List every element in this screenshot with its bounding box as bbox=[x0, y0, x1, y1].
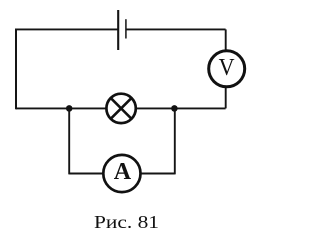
ammeter label A bbox=[114, 159, 132, 186]
node left junction bbox=[66, 105, 73, 112]
wire top-right horizontal (battery right lead) bbox=[126, 28, 226, 30]
lamp HL1 bbox=[106, 94, 135, 123]
ammeter PA1 bbox=[103, 155, 140, 192]
battery GB1 long plate bbox=[117, 10, 119, 50]
wire ammeter bottom horizontal bbox=[69, 173, 175, 175]
wire voltmeter bottom lead bbox=[225, 87, 227, 108]
voltmeter label V bbox=[219, 55, 234, 82]
wire top-left horizontal (battery left lead) bbox=[16, 28, 118, 30]
caption Рис. 81 bbox=[94, 212, 320, 233]
wire ammeter right vertical bbox=[174, 108, 176, 174]
battery GB1 short plate bbox=[125, 19, 127, 38]
voltmeter PV1 bbox=[209, 51, 245, 87]
wire voltmeter top lead bbox=[225, 29, 227, 51]
wire left vertical bbox=[15, 29, 17, 110]
wire ammeter left vertical bbox=[68, 108, 70, 174]
wire middle horizontal bbox=[16, 107, 226, 109]
node right junction bbox=[171, 105, 178, 112]
